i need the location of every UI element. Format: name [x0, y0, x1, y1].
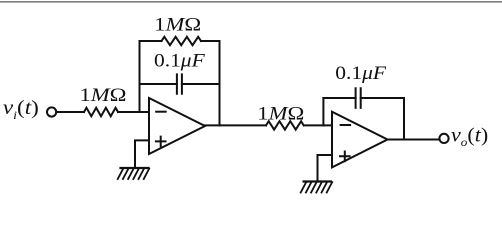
output terminal circle: [439, 134, 448, 143]
wire R3 to U2 minus input: [304, 124, 332, 126]
svg-text:vi(t): vi(t): [3, 97, 39, 122]
wire R1 to node A: [118, 111, 149, 113]
resistor R2 1MOhm (feedback): [162, 37, 201, 45]
capacitor C1 wire right: [182, 83, 220, 85]
top rule: [0, 1, 502, 3]
op-amp U2 triangle: [332, 112, 388, 168]
svg-text:0.1μF: 0.1μF: [154, 52, 206, 72]
capacitor C1 plates: [177, 74, 182, 93]
input terminal circle: [47, 107, 56, 116]
op-amp U2 plus input wire: [318, 155, 333, 181]
resistor R3 1MOhm (between stages): [266, 121, 304, 129]
svg-text:0.1μF: 0.1μF: [335, 64, 387, 84]
ground G2 hatching: [301, 182, 333, 192]
capacitor C2 wire right: [361, 97, 404, 99]
node A: feedback tap vertical: [139, 41, 141, 112]
wire feedback top left: [140, 40, 162, 42]
op-amp U2 minus sign: [341, 124, 351, 126]
ground G1 hatching: [118, 169, 150, 179]
ground G1 bar: [121, 167, 149, 169]
op-amp U1 triangle: [149, 98, 205, 154]
ground G2 bar: [304, 180, 331, 182]
wire input to R1: [57, 111, 84, 113]
feedback right vertical to output: [219, 41, 221, 125]
wire U1 output to R3: [204, 124, 266, 126]
svg-text:1MΩ: 1MΩ: [154, 16, 201, 36]
op-amp U1 plus input wire: [135, 140, 149, 167]
op-amp U1 minus sign: [156, 111, 166, 113]
capacitor C2 plates: [356, 88, 361, 108]
op-amp U1 plus sign: [156, 137, 166, 147]
capacitor C1 wire left: [140, 83, 177, 85]
resistor R1 1MOhm (series input): [84, 108, 118, 116]
wire feedback top right: [201, 40, 220, 42]
wire U2 output to terminal: [387, 139, 440, 141]
node B: feedback tap vertical for C2: [322, 98, 324, 125]
capacitor C2 wire left: [323, 97, 355, 99]
C2 right vertical to output: [403, 98, 405, 140]
op-amp U2 plus sign: [340, 152, 350, 162]
svg-text:vo(t): vo(t): [451, 124, 488, 149]
svg-text:1MΩ: 1MΩ: [257, 105, 304, 125]
svg-text:1MΩ: 1MΩ: [80, 86, 127, 106]
